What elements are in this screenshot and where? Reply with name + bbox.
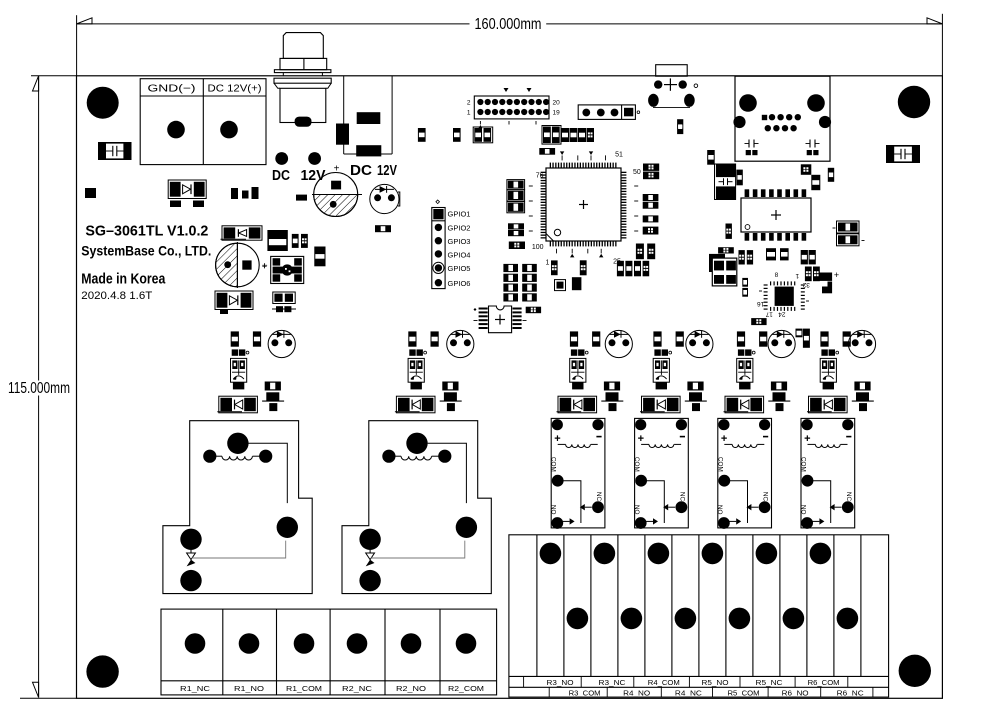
svg-text:R2_NC: R2_NC: [342, 684, 373, 693]
dimension extension line left-top: [31, 75, 77, 77]
svg-text:R1_NO: R1_NO: [234, 684, 264, 693]
svg-text:19: 19: [553, 110, 561, 117]
svg-text:R3_COM: R3_COM: [569, 689, 601, 698]
svg-text:R4_NO: R4_NO: [623, 689, 650, 698]
relay driver cluster 1 (Q1, D1, C1): [231, 331, 239, 346]
passive below CE3: [375, 225, 391, 232]
relay RL1: [163, 421, 312, 594]
svg-text:GPIO1: GPIO1: [448, 210, 471, 219]
passive pair P-h3: [473, 127, 493, 143]
micro-USB connector: [656, 65, 688, 77]
inductor M-5: [718, 247, 734, 253]
svg-text:COM: COM: [550, 457, 557, 472]
passive RJ-5: [828, 168, 834, 182]
electrolytic cap CE1 hatched: [314, 173, 358, 217]
dimension arrow left: [77, 18, 92, 24]
crystal X1: [271, 256, 304, 283]
svg-text:2: 2: [467, 100, 471, 107]
terminal J3 pads: [185, 633, 206, 654]
electrolytic cap CE2 hatched: [216, 243, 260, 287]
dimension extension line top-right: [941, 14, 943, 76]
passive RJ-2: [736, 170, 742, 186]
marks U3-right: [833, 227, 836, 229]
crystal symbol in J2 right: [806, 143, 811, 145]
svg-text:GPIO3: GPIO3: [448, 237, 471, 246]
QFN32 U4: [770, 281, 771, 285]
passive P-h6: [539, 148, 555, 155]
passive RJ-3: [801, 164, 812, 175]
passive M-4: [801, 250, 808, 264]
svg-text:+: +: [554, 433, 560, 445]
relay driver cluster 3 (Q3, D3, C3): [570, 331, 578, 346]
svg-text:+: +: [334, 164, 340, 175]
svg-text:8: 8: [774, 271, 778, 278]
svg-text:R4_COM: R4_COM: [648, 678, 680, 687]
svg-text:76: 76: [536, 173, 544, 180]
passive B-2: [580, 260, 587, 275]
svg-text:R5_COM: R5_COM: [728, 689, 760, 698]
passive R-5: [643, 215, 659, 222]
svg-text:R5_NC: R5_NC: [756, 678, 783, 687]
svg-text:NO: NO: [716, 505, 723, 515]
relay RL3: [551, 418, 605, 528]
svg-text:NC: NC: [845, 492, 852, 502]
svg-text:R5_NO: R5_NO: [702, 678, 729, 687]
svg-text:16: 16: [757, 300, 765, 307]
passive grid B-6: [503, 264, 518, 272]
passive row P-h5: [561, 128, 569, 142]
svg-text:1: 1: [795, 272, 799, 279]
passive P-a: [292, 234, 299, 248]
svg-text:R2_COM: R2_COM: [448, 684, 484, 693]
mounting hole bottom-left: [86, 655, 118, 687]
svg-text:Made in Korea: Made in Korea: [81, 272, 166, 288]
svg-text:COM: COM: [716, 457, 723, 472]
svg-text:24: 24: [778, 310, 786, 317]
wire from DC jack left: [343, 76, 345, 154]
svg-text:DC: DC: [272, 168, 290, 184]
dimension arrow down: [33, 682, 39, 697]
svg-text:DC 12V(+): DC 12V(+): [208, 83, 262, 95]
passive USB-1: [677, 119, 683, 134]
passive R-6: [636, 244, 644, 260]
diode D-B: [222, 226, 262, 240]
relay driver cluster 5 (Q5, D5, C5): [737, 331, 745, 346]
svg-text:SG–3061TL V1.0.2: SG–3061TL V1.0.2: [85, 223, 208, 240]
MCU outer tick marks: [561, 155, 563, 160]
svg-text:NO: NO: [633, 505, 640, 515]
svg-text:R6_NO: R6_NO: [782, 689, 809, 698]
terminal block J3 outline: [161, 609, 497, 695]
passive M-8: [742, 278, 748, 287]
svg-text:+: +: [262, 261, 268, 272]
pads pair D-D: [273, 292, 295, 304]
svg-text:20: 20: [553, 100, 561, 107]
DC jack pad C: [336, 124, 349, 145]
svg-text:GPIO6: GPIO6: [448, 279, 471, 288]
svg-text:SystemBase Co., LTD.: SystemBase Co., LTD.: [81, 244, 211, 259]
pad THT1: [275, 152, 288, 165]
svg-text:NC: NC: [762, 492, 769, 502]
horizontal dimension line 160mm left segment: [77, 23, 470, 25]
svg-text:2020.4.8 1.6T: 2020.4.8 1.6T: [81, 290, 152, 302]
relay driver cluster 6 (Q6, D6, C6): [820, 331, 828, 346]
relay RL2: [342, 421, 491, 594]
passive B-5: [555, 280, 566, 291]
capacitor CT2: [715, 164, 736, 200]
svg-text:R6_COM: R6_COM: [808, 678, 840, 687]
dimension arrow up: [33, 76, 39, 91]
passive M-1: [739, 250, 745, 264]
dimension extension line top-left: [76, 15, 78, 76]
passive M-10: [796, 329, 803, 338]
passive L-2: [507, 190, 525, 201]
svg-text:R3_NC: R3_NC: [599, 678, 626, 687]
pad M-7: [820, 273, 833, 281]
svg-text:115.000mm: 115.000mm: [8, 380, 70, 397]
svg-text:12V: 12V: [301, 168, 326, 184]
diode D-C: [215, 291, 253, 310]
svg-text:DC: DC: [350, 163, 373, 179]
wire DC jack bottom: [344, 153, 392, 155]
terminal J4 label ticks: [523, 676, 525, 687]
relay RL5: [718, 418, 772, 528]
passive M-6: [805, 267, 812, 282]
passive P-h2: [453, 128, 461, 142]
pin header 1x4: [578, 105, 635, 120]
diode D-C pads: [220, 310, 228, 314]
passive L-1: [507, 180, 525, 190]
svg-text:17: 17: [765, 310, 773, 317]
relay RL6: [801, 418, 855, 528]
svg-text:+: +: [721, 433, 727, 445]
passive RJ-1: [707, 150, 715, 165]
capacitor C-TR: [886, 145, 920, 163]
svg-text:1: 1: [467, 110, 471, 117]
pin header 2x10: [474, 96, 549, 119]
pads pair D-D lower: [276, 306, 283, 312]
passive RJ-4: [811, 175, 820, 190]
relay driver cluster 4 (Q4, D4, C4): [653, 331, 661, 346]
terminal J4 pads: [540, 543, 562, 565]
RJ45 connector J2: [735, 76, 830, 161]
svg-text:12V: 12V: [377, 163, 397, 179]
wire from DC jack right: [391, 76, 393, 154]
passive P-h1: [418, 128, 426, 142]
svg-text:GPIO2: GPIO2: [448, 224, 471, 233]
DC barrel jack body below edge: [274, 78, 331, 83]
passive L-5: [509, 242, 525, 250]
MCU U1 body: [546, 168, 621, 241]
passive U3-right pair: [837, 221, 860, 233]
small pads row: [231, 188, 238, 199]
DC barrel jack body above edge: [283, 33, 323, 59]
passive L-4: [508, 223, 524, 229]
passive R-2: [643, 172, 659, 180]
svg-text:R6_NC: R6_NC: [837, 689, 864, 698]
diode D-A: [168, 180, 206, 199]
svg-text:R4_NC: R4_NC: [675, 689, 702, 698]
diode D-A pads: [170, 201, 181, 208]
terminal J1 pad 2: [220, 121, 238, 139]
DC jack pad A: [357, 112, 381, 124]
horizontal dimension line 160mm right segment: [546, 23, 942, 25]
pad S2: [296, 195, 307, 201]
mounting hole top-left: [87, 87, 119, 119]
mounting hole bottom-right: [899, 655, 931, 687]
passive B-1: [551, 260, 558, 275]
svg-text:R1_NC: R1_NC: [180, 684, 211, 693]
capacitor C-TL: [98, 142, 132, 160]
relay RL4: [635, 418, 689, 528]
mounting hole top-right: [898, 86, 930, 118]
MCU U1 pins: [550, 163, 551, 168]
svg-text:COM: COM: [800, 457, 807, 472]
svg-text:GPIO5: GPIO5: [448, 264, 471, 273]
passive B-7: [526, 307, 541, 314]
svg-text:GPIO4: GPIO4: [448, 250, 471, 259]
passive pair P-h4: [542, 126, 561, 145]
DC jack pad B: [356, 145, 381, 156]
svg-text:NC: NC: [595, 492, 602, 502]
svg-text:51: 51: [615, 152, 623, 159]
svg-text:100: 100: [532, 244, 544, 251]
svg-text:R1_COM: R1_COM: [286, 684, 322, 693]
pad black B-4: [572, 277, 582, 290]
svg-text:+: +: [638, 433, 644, 445]
dimension extension line left-bottom: [20, 697, 76, 699]
GPIO header J-GPIO: [432, 208, 445, 289]
vertical dimension line 115mm bottom segment: [38, 396, 40, 698]
terminal block J1 outline: [140, 79, 266, 165]
passive R-1: [643, 164, 659, 171]
SOIC16 U3: [741, 198, 811, 232]
board outline: [77, 76, 943, 699]
svg-text:COM: COM: [633, 457, 640, 472]
dimension arrow right: [927, 18, 942, 24]
vertical dimension line 115mm top segment: [38, 76, 40, 381]
passive group B-3: [617, 261, 624, 277]
tantalum cap CT1: [267, 230, 287, 251]
passive M-2: [766, 248, 776, 260]
SOIC8 U2: [489, 306, 512, 333]
passive M-3: [780, 248, 789, 260]
svg-text:GND(−): GND(−): [148, 83, 196, 95]
passive U3-left: [726, 224, 732, 239]
terminal block J4 outline: [509, 535, 889, 697]
svg-text:NO: NO: [550, 505, 557, 515]
svg-text:+: +: [804, 433, 810, 445]
svg-text:R3_NO: R3_NO: [547, 678, 574, 687]
relay driver cluster 2 (Q2, D2, C2): [408, 331, 416, 346]
crystal symbol in J2 left: [745, 143, 750, 145]
svg-text:+: +: [834, 270, 839, 280]
svg-text:NC: NC: [678, 492, 685, 502]
pad THT2: [308, 152, 321, 165]
svg-text:R2_NO: R2_NO: [396, 684, 426, 693]
svg-text:50: 50: [633, 169, 641, 176]
passive M-9: [751, 318, 766, 325]
pin header ticks: [504, 88, 509, 92]
passive R-4: [643, 202, 659, 209]
passive L-3: [507, 202, 525, 213]
svg-text:1: 1: [546, 260, 550, 267]
passive P-b: [301, 234, 308, 248]
electrolytic cap CE3: [370, 184, 399, 213]
terminal J1 pad 1: [167, 121, 185, 139]
svg-text:32: 32: [802, 281, 810, 288]
pad S1: [85, 188, 96, 198]
passive R-3: [643, 194, 659, 201]
passive P-c: [314, 247, 325, 267]
svg-text:160.000mm: 160.000mm: [475, 16, 542, 33]
svg-text:NO: NO: [799, 505, 806, 515]
